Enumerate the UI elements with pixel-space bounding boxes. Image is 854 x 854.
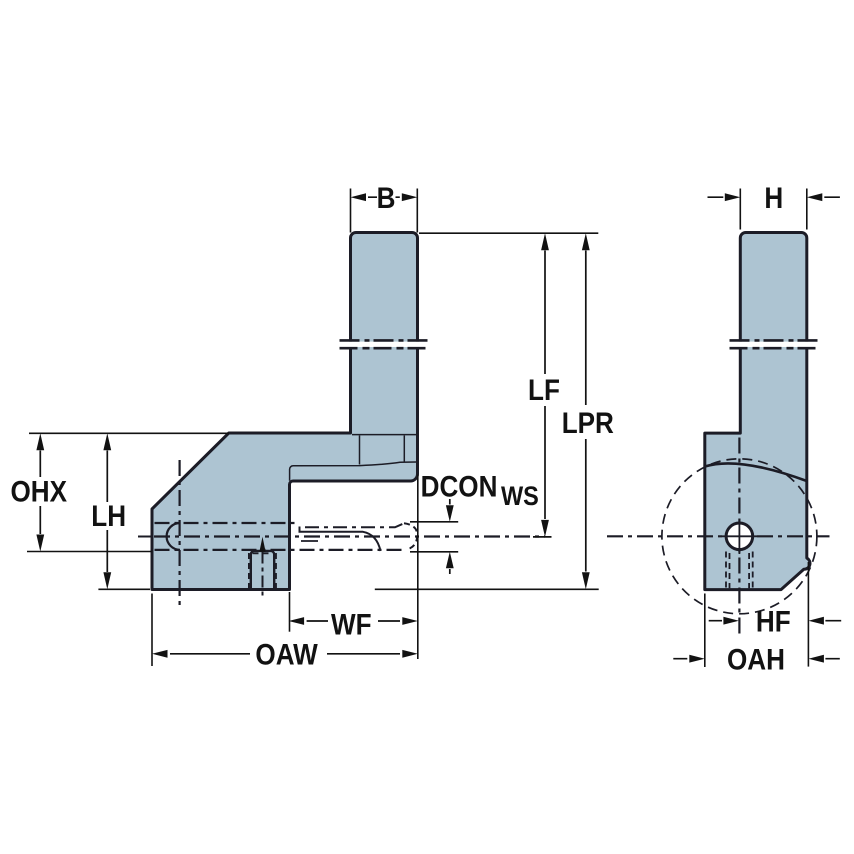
dimension B extension lines [351, 189, 418, 233]
svg-text:B: B [377, 181, 396, 214]
svg-text:LF: LF [528, 373, 560, 406]
slot bottom dash-dot line [155, 549, 406, 551]
dimension B line and arrows [368, 196, 400, 198]
screw hole thread dashed left [248, 553, 250, 588]
dimension LPR line [585, 251, 587, 572]
svg-text:H: H [764, 181, 783, 214]
HF extension line right [807, 562, 809, 667]
thread outer right [752, 552, 754, 589]
svg-text:WF: WF [331, 608, 372, 641]
screw hole thread dashed right [275, 553, 277, 588]
seat small solid line [301, 540, 318, 542]
break gap right shank [727, 342, 820, 347]
vertical centerline through slot arc [179, 460, 181, 607]
dimension OAH line and arrows [673, 658, 840, 660]
screw hole solid profile left view [251, 551, 274, 589]
thread inner left [729, 553, 731, 588]
WF extension line left [289, 592, 291, 632]
right view top solid arc [705, 463, 807, 481]
hole center cross horizontal [722, 535, 757, 537]
dimension OHX line [39, 451, 41, 535]
DCON witness line bottom [410, 551, 458, 553]
slot top dash-dot line [155, 522, 297, 524]
break line left shank upper [340, 339, 429, 342]
dashed gauge circle [662, 459, 817, 614]
dimension LH line [106, 451, 108, 573]
extension line y551.5 left [27, 551, 152, 553]
slot left end arc [167, 523, 180, 550]
thread inner right [748, 553, 750, 588]
left view inner vertical facet line 1 [359, 436, 361, 465]
extension line y433 left [29, 432, 229, 434]
dimension H line and arrows [708, 196, 840, 198]
svg-text:OAH: OAH [727, 643, 785, 676]
dimension WF line and arrows [307, 620, 400, 622]
OAW extension line left [151, 594, 153, 667]
left view inner thin line under flange top [352, 434, 416, 436]
svg-text:OAW: OAW [255, 638, 318, 671]
WS up arrow [449, 569, 451, 574]
right view horizontal centerline [607, 535, 830, 537]
slot right end dashed arc [404, 523, 417, 549]
svg-text:LH: LH [91, 499, 126, 532]
right view body [705, 233, 810, 590]
hole circle right view [726, 523, 753, 550]
left view inner vertical facet line 2 [403, 436, 405, 463]
extension line y589.3 LH bottom [98, 588, 150, 590]
left view main centerline [154, 535, 545, 537]
hole center cross vertical [738, 519, 740, 554]
svg-text:DCON: DCON [421, 470, 498, 503]
LF bottom tick [533, 536, 552, 538]
dimension H extension lines [740, 189, 807, 230]
break line right shank upper [730, 339, 818, 342]
break line left shank lower [340, 347, 429, 350]
dimension OAW line and arrows [170, 653, 400, 655]
screw hole centerline with up arrow [262, 552, 264, 598]
svg-text:WS: WS [501, 482, 539, 512]
centerline tick left of body [138, 536, 154, 538]
bottom extension line right of body [375, 588, 599, 590]
top extension line right of shank [419, 232, 598, 234]
right view vertical centerline [738, 438, 740, 637]
svg-text:LPR: LPR [562, 406, 614, 439]
DCON down arrow [449, 499, 451, 505]
DCON witness line top [410, 521, 458, 523]
screw hole thread dashed top [253, 552, 273, 554]
svg-text:HF: HF [756, 605, 791, 638]
left view inner contour under flange [290, 462, 416, 481]
left view body [152, 233, 418, 590]
thread below hole right view outer left [725, 552, 727, 589]
seat top dashed line [305, 523, 404, 527]
OAH extension line left [704, 594, 706, 668]
break gap left shank [337, 342, 431, 347]
svg-text:OHX: OHX [11, 475, 68, 508]
seat step solid profile [300, 527, 381, 552]
dimension HF line and arrows [709, 620, 842, 622]
break line right shank lower [730, 347, 818, 350]
dimension LF line [544, 251, 546, 520]
vertical extension line x417.8 [417, 475, 419, 660]
